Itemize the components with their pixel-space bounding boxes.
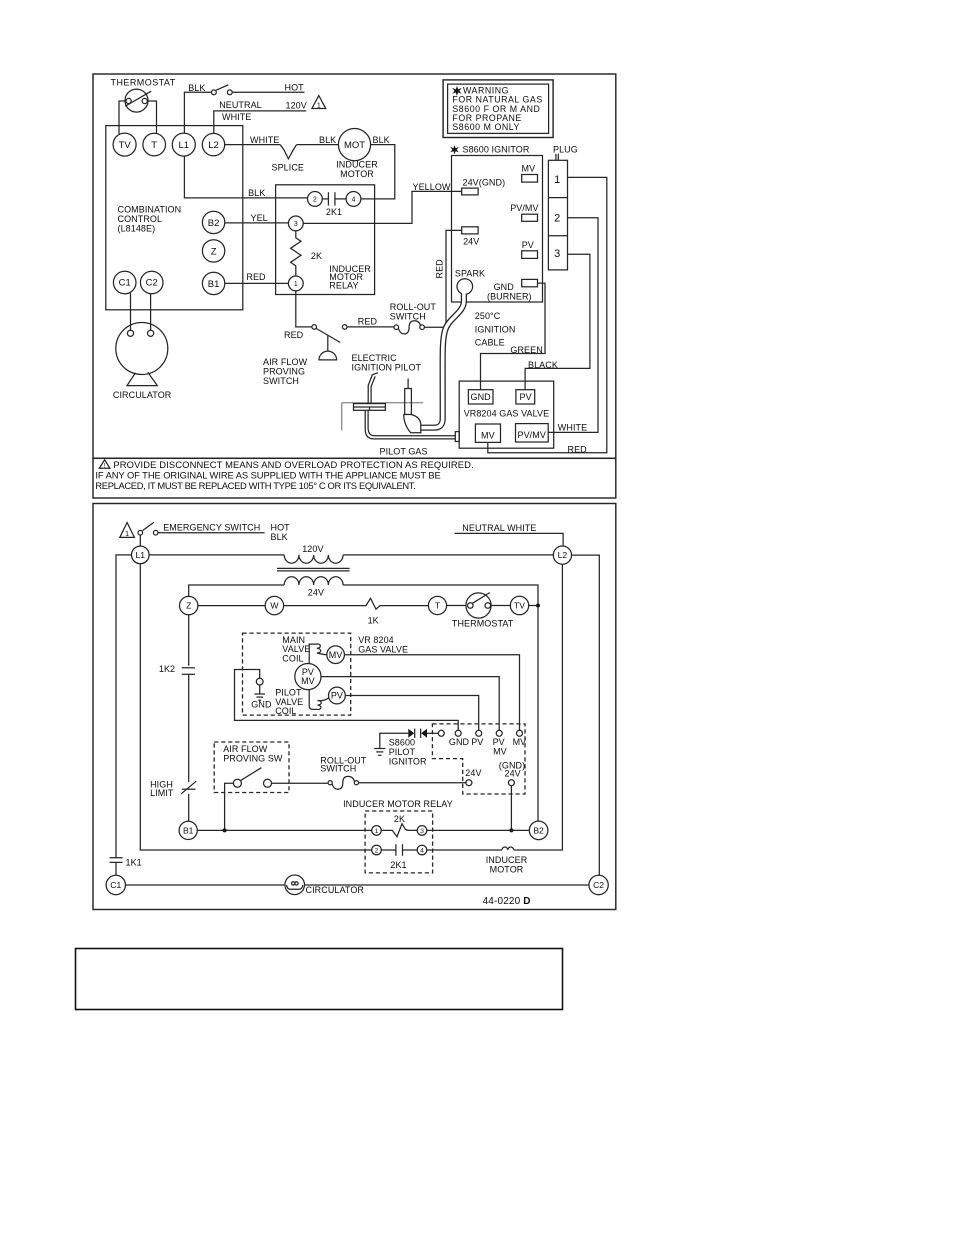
wire B1 to relay terminal 1: [225, 282, 289, 284]
wire W to 1K: [284, 605, 363, 607]
svg-text:PILOT: PILOT: [389, 747, 416, 757]
terminal B1: [202, 272, 224, 294]
svg-text:MOTOR: MOTOR: [340, 169, 374, 179]
circulator motor: [116, 323, 168, 386]
svg-text:WHITE: WHITE: [558, 422, 587, 432]
tab PV/MV: [522, 214, 538, 221]
svg-text:24V: 24V: [463, 237, 479, 247]
ground (ignitor): [374, 749, 385, 756]
wire B1 to contact 1: [197, 829, 371, 831]
wire Z to W: [198, 605, 265, 607]
wire L2 to right rail C2: [572, 555, 600, 875]
wire L1 to disconnect switch (BLK): [184, 92, 211, 133]
capacitor 1K2: [182, 668, 195, 675]
wire L1 left rail: [116, 555, 132, 858]
svg-text:THERMOSTAT: THERMOSTAT: [452, 619, 514, 629]
terminal B1 (bottom): [179, 821, 197, 839]
wire MV to ignitor MV terminal: [344, 655, 519, 731]
svg-text:RED: RED: [246, 272, 266, 282]
svg-text:BLK: BLK: [271, 532, 288, 542]
wire 1K2 to high limit: [188, 674, 190, 782]
S8600 ignitor label: [450, 145, 530, 155]
terminal C1: [113, 271, 136, 294]
terminal B2 (bottom): [529, 821, 548, 840]
svg-text:WHITE: WHITE: [222, 112, 251, 122]
wire L1 drop to contact 2: [140, 564, 371, 850]
valve GND terminal: [254, 678, 265, 700]
svg-text:NEUTRAL WHITE: NEUTRAL WHITE: [462, 523, 536, 533]
tab MV: [522, 175, 538, 183]
relay contact 3 (bottom): [417, 826, 427, 836]
svg-text:B2: B2: [208, 218, 220, 229]
inducer motor MOT: [338, 129, 370, 161]
wire roll-out to ignitor 24V: [424, 230, 461, 327]
resistor 1K: [363, 598, 382, 609]
svg-text:PV: PV: [520, 392, 532, 402]
ignition cable (double line): [421, 293, 464, 428]
air flow proving sw dashed box: [214, 742, 289, 793]
thermostat TH1: [125, 89, 151, 112]
svg-text:RED: RED: [435, 259, 445, 279]
frame top diagram: [93, 74, 616, 458]
svg-text:L1: L1: [136, 550, 146, 560]
tab PV: [522, 251, 538, 259]
svg-text:PILOT GAS: PILOT GAS: [380, 447, 428, 457]
wire contact 3 to B2: [427, 829, 530, 831]
svg-text:1K2: 1K2: [159, 664, 175, 674]
spark gap symbol: [408, 729, 427, 738]
svg-text:INDUCER: INDUCER: [486, 855, 528, 865]
svg-text:SWITCH: SWITCH: [390, 312, 426, 322]
svg-text:MV: MV: [513, 737, 527, 747]
wire contact 4 to inducer motor coil: [427, 849, 502, 851]
svg-text:VR8204 GAS VALVE: VR8204 GAS VALVE: [464, 409, 550, 419]
coil PV/MV circle: [295, 664, 321, 690]
svg-text:EMERGENCY SWITCH: EMERGENCY SWITCH: [163, 522, 260, 532]
svg-text:2K: 2K: [394, 814, 405, 824]
wire air flow to roll-out: [347, 326, 394, 328]
gas valve dashed box: [243, 633, 351, 715]
air flow proving switch: [312, 325, 347, 360]
svg-text:T: T: [151, 140, 157, 151]
wire circulator to C2: [305, 884, 590, 886]
wire WHITE plug2 to valve PV/MV: [548, 218, 598, 433]
svg-text:2K: 2K: [311, 251, 322, 261]
empty note box: [76, 949, 563, 1010]
terminal Z: [180, 596, 198, 614]
valve tab MV: [475, 424, 500, 442]
svg-text:WHITE: WHITE: [250, 135, 279, 145]
svg-text:BLK: BLK: [373, 135, 390, 145]
tab 24V(GND): [462, 188, 478, 195]
wire thermostat to TV: [491, 605, 510, 607]
svg-text:24V: 24V: [505, 768, 521, 778]
ignitor terminal (spark): [438, 730, 444, 736]
relay 2K contact: [381, 824, 417, 837]
terminal B2: [202, 211, 224, 233]
svg-text:CONTROL: CONTROL: [118, 214, 163, 224]
svg-text:C1: C1: [119, 278, 131, 289]
svg-text:B1: B1: [183, 826, 194, 836]
svg-text:IGNITION: IGNITION: [475, 324, 516, 334]
capacitor 1K1: [110, 858, 123, 863]
ignitor terminal (GND)24V: [508, 780, 514, 786]
svg-text:COIL: COIL: [282, 653, 303, 663]
svg-text:RELAY: RELAY: [329, 280, 358, 290]
svg-text:GND: GND: [251, 700, 272, 710]
terminal L1 (bottom): [132, 546, 150, 564]
air flow switch (bottom): [233, 768, 271, 788]
svg-text:T: T: [435, 601, 441, 611]
svg-text:PLUG: PLUG: [553, 145, 578, 155]
svg-text:2K1: 2K1: [326, 207, 342, 217]
wire C1 to circulator: [126, 884, 286, 886]
wire TV to junction: [529, 605, 538, 607]
main valve coil symbol: [317, 644, 321, 653]
plug connector: [548, 154, 567, 270]
relay terminal 3: [288, 216, 303, 231]
warning strip triangle: [99, 460, 110, 470]
terminal L2 (bottom): [553, 546, 571, 564]
capacitor 2K1: [322, 192, 346, 205]
wire NEUTRAL from L2: [214, 111, 306, 134]
inducer motor coil: [502, 847, 514, 850]
svg-text:C2: C2: [593, 880, 604, 890]
svg-text:C2: C2: [146, 278, 158, 289]
relay contact 2 (bottom): [372, 845, 382, 855]
svg-text:MV: MV: [493, 747, 507, 757]
wire splice to inducer motor: [297, 144, 339, 146]
svg-text:MV: MV: [481, 431, 495, 441]
svg-text:GND: GND: [471, 392, 492, 402]
relay contact 1 (bottom): [372, 826, 382, 836]
pilot burner: [404, 379, 421, 433]
svg-text:3: 3: [294, 221, 298, 228]
svg-text:GREEN: GREEN: [510, 345, 542, 355]
relay terminal 1: [288, 276, 303, 291]
valve tab PV/MV: [516, 424, 549, 442]
S8600 pilot ignitor dashed box: [432, 724, 525, 794]
svg-text:BLK: BLK: [319, 135, 336, 145]
svg-text:2K1: 2K1: [390, 860, 406, 870]
svg-text:PROVIDE DISCONNECT MEANS AND O: PROVIDE DISCONNECT MEANS AND OVERLOAD PR…: [113, 459, 473, 470]
VR8204 gas valve box: [459, 381, 554, 448]
wire (GND)24V down to B2 row: [510, 786, 512, 831]
wire relay 1 down to air flow switch: [296, 291, 312, 327]
pilot gas tube: [365, 410, 459, 441]
warning strip box: [93, 458, 616, 498]
wire primary to L2: [343, 554, 553, 556]
svg-text:MV: MV: [301, 676, 315, 686]
svg-text:L2: L2: [558, 550, 568, 560]
svg-text:LIMIT: LIMIT: [150, 788, 174, 798]
wire C1 to circulator: [130, 293, 132, 331]
svg-text:ELECTRIC: ELECTRIC: [352, 353, 398, 363]
svg-text:Z: Z: [211, 246, 217, 257]
terminal C2: [140, 271, 163, 294]
svg-text:CIRCULATOR: CIRCULATOR: [306, 885, 365, 895]
svg-text:120V: 120V: [286, 101, 307, 111]
svg-text:PV: PV: [522, 240, 534, 250]
svg-text:24V: 24V: [465, 768, 481, 778]
transformer primary: [284, 555, 343, 563]
svg-text:REPLACED, IT MUST BE REPLACED: REPLACED, IT MUST BE REPLACED WITH TYPE …: [95, 480, 415, 491]
pilot bracket: [354, 404, 386, 411]
coil MV circle: [327, 646, 345, 664]
relay terminal 4: [346, 192, 361, 207]
combination control box: [106, 126, 243, 310]
wire spark gap to ground: [380, 733, 409, 748]
wire spark gap to terminal: [427, 732, 438, 734]
wire PV to ignitor PV terminal: [345, 696, 478, 731]
inducer motor relay box: [276, 185, 375, 295]
svg-text:1: 1: [125, 531, 129, 538]
svg-text:4: 4: [420, 847, 424, 854]
wire coil to L2 drop: [514, 564, 563, 850]
svg-text:PV: PV: [471, 737, 483, 747]
svg-text:PROVING SW: PROVING SW: [223, 753, 283, 763]
svg-text:C1: C1: [110, 880, 121, 890]
svg-text:W: W: [270, 601, 279, 611]
svg-text:SPLICE: SPLICE: [272, 162, 305, 172]
svg-text:INDUCER MOTOR RELAY: INDUCER MOTOR RELAY: [343, 799, 453, 809]
wire coil to MV: [317, 653, 327, 655]
svg-text:PV/MV: PV/MV: [518, 430, 546, 440]
wire pilot coil to PV: [318, 698, 329, 701]
svg-text:SWITCH: SWITCH: [263, 376, 299, 386]
S8600 ignitor box: [452, 156, 543, 303]
splice symbol: [280, 145, 296, 159]
svg-text:250°C: 250°C: [475, 311, 501, 321]
svg-text:L2: L2: [208, 140, 219, 151]
pilot valve coil symbol: [317, 701, 321, 710]
svg-text:COMBINATION: COMBINATION: [118, 205, 182, 215]
warning triangle 1: [312, 96, 326, 110]
svg-text:S8600: S8600: [389, 738, 415, 748]
svg-text:2: 2: [313, 197, 317, 204]
svg-text:BLK: BLK: [248, 188, 265, 198]
svg-text:RED: RED: [568, 445, 588, 455]
wire secondary right down to B2: [343, 585, 538, 822]
roll-out switch: [394, 321, 424, 334]
wire air flow to roll-out: [272, 782, 329, 784]
svg-text:IGNITOR: IGNITOR: [389, 757, 427, 767]
svg-text:BLACK: BLACK: [528, 360, 558, 370]
terminal L1: [172, 133, 195, 156]
svg-text:PV: PV: [493, 737, 505, 747]
junction dot (GND)24V: [509, 828, 513, 832]
wire 1K to T: [382, 605, 428, 607]
valve tab PV: [516, 390, 535, 404]
svg-text:YELLOW: YELLOW: [413, 182, 451, 192]
svg-text:YEL: YEL: [251, 213, 268, 223]
svg-text:CIRCULATOR: CIRCULATOR: [113, 390, 172, 400]
emergency switch: [138, 522, 158, 535]
ignitor terminal GND: [455, 730, 461, 736]
svg-text:MV: MV: [329, 650, 343, 660]
svg-text:TV: TV: [514, 601, 525, 611]
coil PV circle: [329, 687, 346, 704]
terminal T (bottom): [428, 596, 446, 614]
svg-text:(BURNER): (BURNER): [487, 291, 532, 301]
tab GND(BURNER): [522, 279, 538, 286]
svg-text:THERMOSTAT: THERMOSTAT: [111, 78, 176, 88]
svg-text:BLK: BLK: [188, 83, 205, 93]
svg-text:44-0220 D: 44-0220 D: [483, 896, 531, 907]
wire C2 to circulator: [150, 293, 152, 330]
terminal C2 (bottom): [589, 875, 608, 894]
svg-text:SWITCH: SWITCH: [320, 764, 356, 774]
terminal TV: [113, 133, 136, 156]
terminal C1 (bottom): [106, 875, 125, 894]
svg-text:SPARK: SPARK: [455, 269, 485, 279]
capacitor 2K1 (bottom): [381, 844, 417, 856]
ignitor terminal PV/MV: [496, 730, 502, 736]
wire B1 junction riser to air flow: [225, 783, 234, 830]
warning note box: [443, 80, 553, 138]
svg-text:1K: 1K: [368, 616, 379, 626]
svg-text:24V: 24V: [308, 588, 324, 598]
svg-text:COIL: COIL: [275, 706, 296, 716]
warning triangle 1 (bottom): [120, 523, 135, 538]
svg-text:Z: Z: [186, 601, 191, 611]
svg-text:S8600 IGNITOR: S8600 IGNITOR: [463, 145, 530, 155]
wire GREEN gnd burner to valve GND: [481, 283, 546, 390]
frame bottom diagram: [93, 504, 616, 910]
transformer core: [277, 567, 350, 569]
junction dot TV: [536, 604, 540, 608]
svg-text:MOT: MOT: [344, 140, 365, 151]
wire L1 to transformer: [149, 554, 284, 556]
wire 1K1 to C1: [115, 862, 117, 875]
wire L1 BLK to relay terminal 2: [184, 156, 307, 198]
high limit switch: [181, 781, 196, 794]
svg-text:(L8148E): (L8148E): [118, 224, 156, 234]
svg-text:120V: 120V: [302, 544, 323, 554]
svg-text:NEUTRAL: NEUTRAL: [219, 100, 262, 110]
svg-text:1: 1: [317, 103, 321, 110]
wire coil to PV/MV: [309, 644, 316, 663]
wire high limit to B1: [188, 794, 190, 821]
ignitor terminal 24V: [466, 780, 472, 786]
wire neutral to L2: [455, 533, 564, 546]
wire RED plug1 to valve MV: [488, 177, 607, 452]
svg-text:B2: B2: [533, 826, 544, 836]
terminal W: [265, 596, 283, 614]
svg-text:1K1: 1K1: [126, 858, 142, 868]
wire HOT: [232, 91, 304, 93]
wire PV/MV to ignitor PV/MV terminal: [321, 677, 499, 731]
svg-text:1: 1: [375, 828, 379, 835]
svg-text:MV: MV: [522, 163, 536, 173]
roll-out switch (bottom): [328, 776, 358, 789]
relay terminal 2: [308, 192, 323, 207]
svg-text:RED: RED: [358, 317, 378, 327]
tab 24V: [462, 227, 478, 234]
svg-text:RED: RED: [284, 330, 304, 340]
svg-text:2: 2: [375, 847, 379, 854]
svg-text:B1: B1: [208, 279, 220, 290]
relay dashed box (bottom): [365, 811, 433, 873]
svg-text:MOTOR: MOTOR: [490, 864, 524, 874]
svg-text:1: 1: [554, 174, 560, 186]
svg-text:PV: PV: [331, 691, 343, 701]
svg-text:2: 2: [554, 213, 560, 225]
svg-text:HOT: HOT: [285, 82, 305, 92]
wire L2 to splice: [225, 144, 281, 146]
svg-text:TV: TV: [119, 140, 132, 151]
igniter electrode: [368, 373, 378, 404]
transformer secondary: [284, 577, 343, 585]
svg-text:IGNITION PILOT: IGNITION PILOT: [352, 363, 422, 373]
svg-text:L1: L1: [179, 140, 190, 151]
junction dot B1 row: [223, 828, 227, 832]
relay contact 4 (bottom): [417, 845, 427, 855]
svg-text:GAS VALVE: GAS VALVE: [358, 645, 408, 655]
terminal L2: [202, 133, 224, 155]
wire PV/MV to pilot coil: [309, 690, 317, 710]
wire roll-out to 24V terminal: [359, 782, 466, 784]
spark terminal: [457, 279, 473, 295]
svg-text:3: 3: [420, 828, 424, 835]
wire thermostat right to T: [147, 101, 156, 134]
ignitor terminal PV: [476, 730, 482, 736]
wire switch to L1: [139, 535, 141, 546]
svg-text:CABLE: CABLE: [475, 338, 505, 348]
disconnect switch SW1: [212, 85, 233, 95]
wire valve GND to ignitor GND: [235, 670, 459, 731]
thermostat (bottom): [466, 593, 491, 619]
svg-text:4: 4: [352, 197, 356, 204]
svg-text:24V(GND): 24V(GND): [463, 177, 506, 187]
wire motor to relay terminal 4: [361, 145, 395, 199]
burner thin lines: [342, 402, 423, 404]
wire secondary left to Z: [189, 585, 285, 596]
svg-text:1: 1: [294, 281, 298, 288]
wire B2 to relay terminal 3: [225, 222, 289, 224]
svg-text:3: 3: [554, 248, 560, 260]
svg-text:PV/MV: PV/MV: [510, 203, 538, 213]
wire emergency switch: [158, 532, 265, 534]
ignitor terminal MV: [517, 730, 523, 736]
terminal Z: [202, 240, 224, 262]
wire thermostat left to TV: [119, 101, 126, 134]
terminal TV (bottom): [510, 596, 528, 614]
wire T to thermostat: [447, 605, 466, 607]
wire Z down: [188, 615, 190, 666]
resistor 2K: [291, 231, 301, 276]
svg-text:GND: GND: [449, 737, 470, 747]
wire BLACK plug3 to valve PV: [525, 254, 590, 390]
valve tab GND: [468, 390, 493, 404]
wire YELLOW relay 3 to ignitor 24V(GND): [303, 191, 462, 223]
svg-text:S8600 M ONLY: S8600 M ONLY: [452, 122, 520, 132]
svg-text:IF ANY OF THE ORIGINAL WIRE AS: IF ANY OF THE ORIGINAL WIRE AS SUPPLIED …: [95, 470, 440, 481]
circulator (bottom): [285, 875, 305, 895]
terminal T: [143, 133, 166, 156]
